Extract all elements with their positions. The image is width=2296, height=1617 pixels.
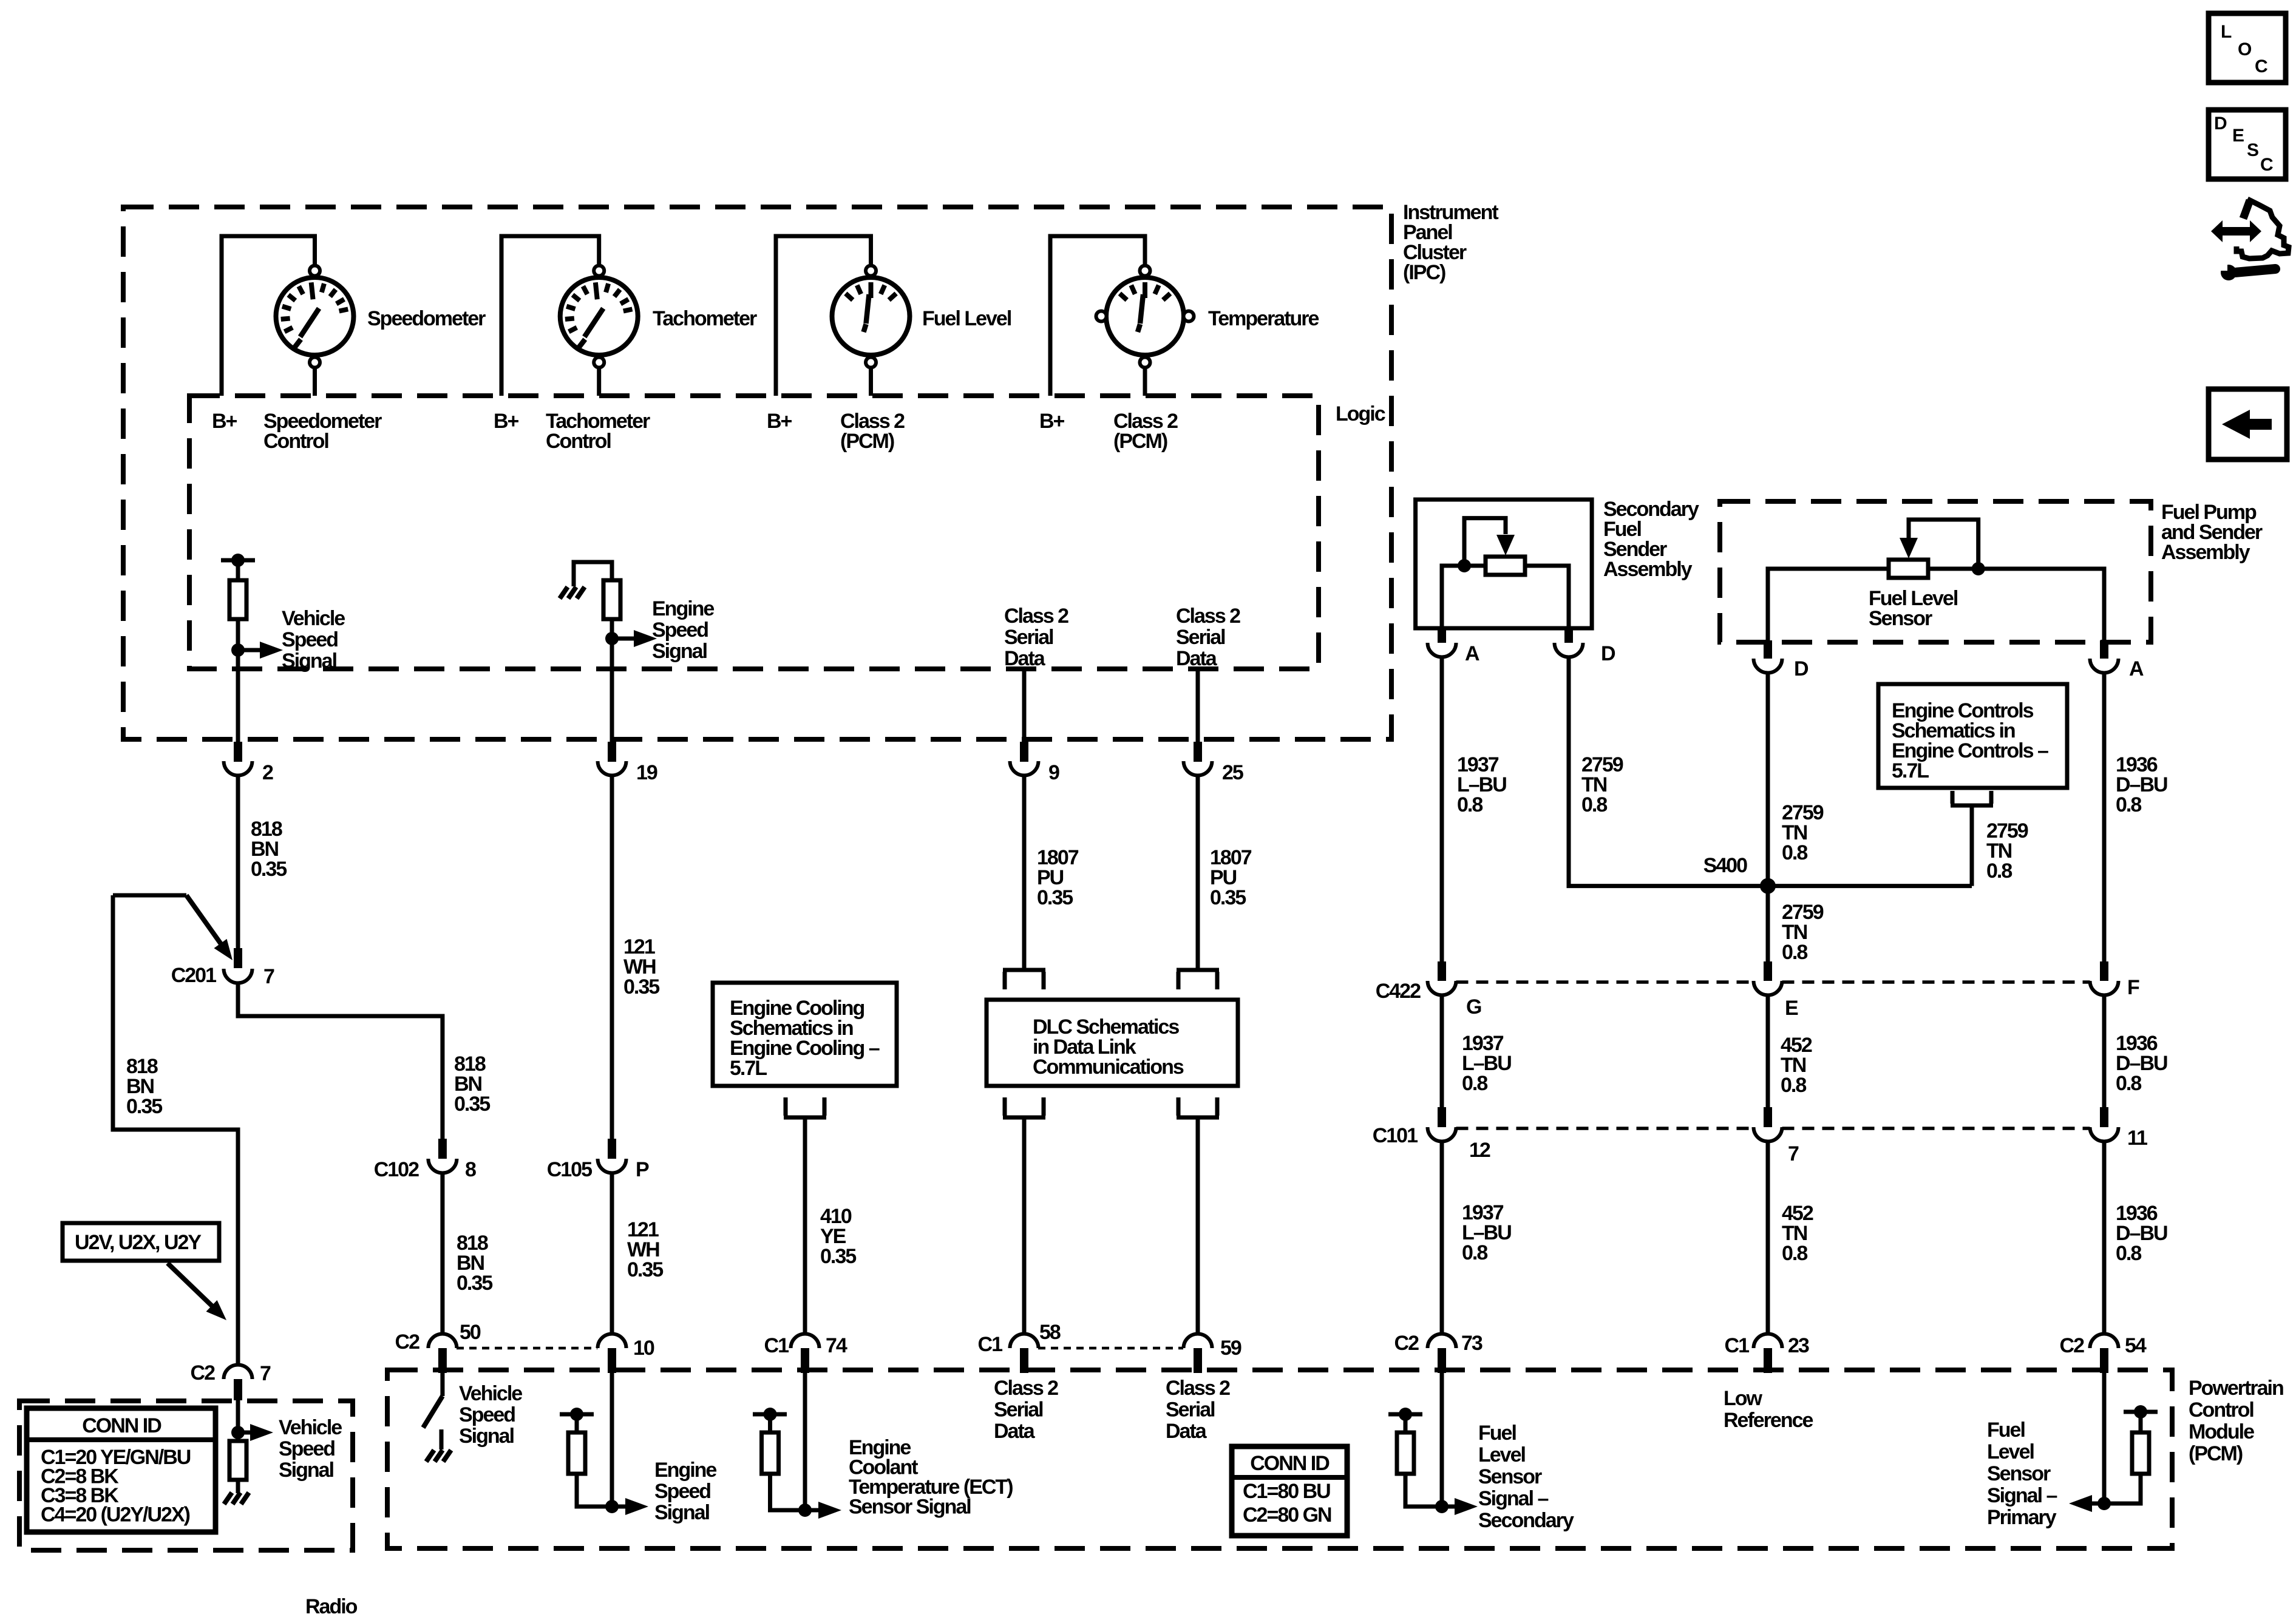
svg-text:C1: C1 <box>1725 1334 1750 1357</box>
box Fuel Pump and Sender Assembly <box>1720 501 2151 642</box>
svg-text:Class 2: Class 2 <box>1166 1377 1230 1400</box>
connector C102 pin 8 <box>438 1139 447 1159</box>
table CONN ID radio <box>27 1408 216 1532</box>
svg-text:D: D <box>1601 642 1615 665</box>
node S400 splice <box>1760 878 1776 894</box>
bracket below DLC left <box>1003 1097 1045 1117</box>
wire 818 BN C102 to pin50 <box>440 1173 444 1334</box>
svg-text:Vehicle: Vehicle <box>282 607 345 630</box>
svg-text:0.8: 0.8 <box>1782 841 1807 864</box>
svg-text:B+: B+ <box>767 410 792 433</box>
inline connector line C422 <box>1456 980 1754 984</box>
svg-text:Data: Data <box>1176 647 1218 670</box>
connector C422 pin E <box>1764 961 1772 981</box>
wire 452 TN C101 to PCM 23 <box>1766 1141 1770 1334</box>
svg-text:C102: C102 <box>374 1158 419 1181</box>
svg-text:59: 59 <box>1220 1337 1241 1360</box>
gauge temperature <box>1096 266 1194 368</box>
svg-text:54: 54 <box>2125 1334 2147 1357</box>
svg-text:Serial: Serial <box>1004 626 1053 649</box>
svg-text:O: O <box>2238 39 2252 59</box>
connector fuel pump pin A <box>2100 640 2108 659</box>
arrow wiper secondary <box>1496 535 1515 555</box>
resistor vehicle speed (IPC) <box>229 580 246 619</box>
connector fuel pump pin D <box>1764 640 1772 659</box>
connector C101 pin 7 <box>1764 1107 1772 1127</box>
ground engine speed (IPC) <box>560 587 568 598</box>
wire C201 to C102 elbow <box>238 983 443 1139</box>
svg-text:C1: C1 <box>764 1334 789 1357</box>
svg-text:CONN ID: CONN ID <box>82 1414 161 1437</box>
svg-text:73: 73 <box>1461 1332 1483 1355</box>
resistor fuel level secondary (PCM) <box>1388 1412 1422 1417</box>
svg-text:50: 50 <box>460 1321 481 1344</box>
svg-text:Signal: Signal <box>279 1459 334 1482</box>
svg-text:C1: C1 <box>978 1333 1003 1356</box>
connector PCM pin 10 <box>598 1334 627 1349</box>
potentiometer fuel level sensor <box>1889 560 1928 578</box>
svg-text:L: L <box>2221 22 2232 42</box>
connector secondary pin D <box>1564 626 1573 643</box>
svg-text:Vehicle: Vehicle <box>279 1416 342 1439</box>
wire radio branch diagonal into C201 <box>186 895 222 946</box>
wire 1937 L-BU C101 to PCM 73 <box>1440 1141 1444 1334</box>
connector PCM pin 59 <box>1184 1334 1212 1349</box>
bracket below engine controls box <box>1951 791 1993 805</box>
connector C422 pin G <box>1438 961 1446 981</box>
svg-text:74: 74 <box>826 1334 847 1357</box>
svg-text:B+: B+ <box>494 410 519 433</box>
box Secondary Fuel Sender Assembly <box>1416 500 1592 628</box>
svg-text:5.7L: 5.7L <box>730 1057 767 1080</box>
svg-text:Serial: Serial <box>1166 1398 1215 1422</box>
svg-text:C105: C105 <box>547 1158 592 1181</box>
node engine speed signal junction <box>605 632 619 645</box>
wire 1937 L-BU pin A to C422 G <box>1440 657 1444 961</box>
node wiper junction fuel pump <box>1972 562 1985 575</box>
connector C201 pin 7 <box>234 948 242 968</box>
svg-text:D: D <box>2214 114 2227 134</box>
svg-text:0.35: 0.35 <box>454 1093 490 1116</box>
svg-text:C4=20 (U2Y/U2X): C4=20 (U2Y/U2X) <box>41 1503 190 1527</box>
svg-text:8: 8 <box>465 1158 476 1181</box>
node wiper junction secondary <box>1458 559 1471 572</box>
box Engine Cooling Schematics <box>713 983 897 1086</box>
wire S400 to engine controls branch <box>1768 884 1972 888</box>
svg-text:58: 58 <box>1039 1321 1061 1344</box>
svg-text:0.35: 0.35 <box>627 1258 663 1281</box>
bracket below DLC right <box>1177 1097 1219 1117</box>
svg-text:0.8: 0.8 <box>1781 1074 1806 1097</box>
svg-text:Sensor: Sensor <box>1869 607 1932 630</box>
svg-text:Sensor: Sensor <box>1478 1465 1542 1488</box>
node radio VSS junction <box>231 1426 245 1439</box>
svg-text:Assembly: Assembly <box>1603 558 1693 581</box>
box U2V U2X U2Y <box>63 1223 219 1261</box>
arrow engine speed signal (PCM) <box>612 1505 627 1509</box>
svg-text:0.35: 0.35 <box>1037 886 1073 909</box>
svg-text:Class 2: Class 2 <box>1004 605 1068 628</box>
wire secondary pot right to pin D <box>1525 566 1569 626</box>
svg-text:A: A <box>2129 657 2144 680</box>
svg-text:Temperature: Temperature <box>1208 307 1319 330</box>
box DLC Schematics <box>987 1000 1238 1086</box>
icon DESC box <box>2209 110 2286 179</box>
svg-text:0.8: 0.8 <box>1581 793 1607 816</box>
wire 121 WH pin19 to C105 <box>610 775 614 1139</box>
resistor radio <box>229 1441 246 1480</box>
svg-text:Speed: Speed <box>459 1403 515 1426</box>
svg-text:7: 7 <box>263 965 274 988</box>
connector PCM C2 pin 54 <box>2090 1334 2119 1349</box>
svg-text:(PCM): (PCM) <box>1113 430 1167 453</box>
node fuel secondary junction <box>1435 1500 1449 1513</box>
svg-text:C2: C2 <box>1394 1332 1419 1355</box>
wire 2759 TN engine controls branch <box>1970 805 1974 886</box>
box Radio <box>19 1401 353 1550</box>
svg-text:Signal –: Signal – <box>1987 1484 2057 1507</box>
wire B+ fuel level gauge <box>776 236 871 396</box>
svg-text:S400: S400 <box>1703 854 1747 877</box>
node vehicle speed signal junction <box>231 643 245 657</box>
svg-text:C2: C2 <box>191 1361 216 1385</box>
connector radio C2 pin 7 <box>224 1365 253 1380</box>
svg-text:Serial: Serial <box>994 1398 1043 1422</box>
wire 1807 PU pin9 to DLC <box>1022 775 1027 969</box>
connector pin 9 <box>1020 742 1028 762</box>
connector pin 25 <box>1194 742 1202 762</box>
wire 1807 PU pin25 to DLC <box>1196 775 1200 969</box>
wire PCM pin50 to switch <box>440 1373 444 1396</box>
svg-text:S: S <box>2247 140 2258 160</box>
gauge tachometer <box>560 266 638 368</box>
wire radio branch vertical <box>113 895 238 1364</box>
svg-text:Level: Level <box>1478 1443 1525 1466</box>
svg-text:0.8: 0.8 <box>2116 793 2141 816</box>
wire 1807 PU DLC to pin59 <box>1196 1117 1200 1334</box>
svg-text:Speedometer: Speedometer <box>367 307 486 330</box>
svg-text:C2: C2 <box>2060 1334 2085 1357</box>
connector PCM C1 pin 23 <box>1754 1334 1782 1349</box>
svg-text:19: 19 <box>636 761 657 784</box>
ground PCM switch <box>426 1450 434 1462</box>
svg-text:Assembly: Assembly <box>2161 541 2250 564</box>
svg-text:9: 9 <box>1048 761 1059 784</box>
bracket below engine cooling box <box>784 1097 826 1117</box>
svg-text:Fuel Level: Fuel Level <box>922 307 1011 330</box>
arrow U2V to wire <box>168 1263 216 1310</box>
svg-text:0.35: 0.35 <box>251 858 287 881</box>
arrow wiper fuel pump <box>1900 538 1918 558</box>
svg-text:Signal: Signal <box>652 640 707 663</box>
svg-text:C422: C422 <box>1376 980 1421 1003</box>
svg-text:0.35: 0.35 <box>1210 886 1246 909</box>
connector PCM C2 pin 73 <box>1428 1334 1456 1349</box>
wire B+ temperature gauge <box>1050 236 1145 396</box>
svg-text:Low: Low <box>1724 1387 1763 1410</box>
wire 1936 D-BU C422 to C101 <box>2102 995 2107 1107</box>
wire PCM pin73 internal <box>1440 1373 1444 1507</box>
svg-text:CONN ID: CONN ID <box>1250 1452 1330 1475</box>
wire class 2 serial data right (IPC) <box>1196 669 1200 742</box>
resistor engine speed (PCM) <box>560 1412 594 1417</box>
svg-text:Engine: Engine <box>652 597 714 620</box>
svg-text:Primary: Primary <box>1987 1506 2057 1529</box>
wire 1937 L-BU C422 to C101 <box>1440 995 1444 1107</box>
node vehicle speed pull-up top <box>221 558 255 563</box>
svg-text:Control: Control <box>263 430 328 453</box>
svg-text:U2V, U2X, U2Y: U2V, U2X, U2Y <box>75 1231 202 1254</box>
wire tachometer control <box>597 368 601 396</box>
arrow vehicle speed signal (IPC) <box>238 648 261 653</box>
wire PCM pin74 internal <box>803 1373 807 1510</box>
svg-text:F: F <box>2127 976 2139 999</box>
connector C101 pin 12 <box>1438 1107 1446 1127</box>
wire 1936 D-BU C101 to PCM 54 <box>2102 1141 2107 1334</box>
svg-text:G: G <box>1466 995 1481 1019</box>
switch vehicle speed signal (PCM) <box>423 1396 443 1428</box>
svg-text:E: E <box>2232 126 2244 146</box>
svg-text:Serial: Serial <box>1176 626 1225 649</box>
svg-text:Vehicle: Vehicle <box>459 1382 522 1405</box>
node switch fixed contact <box>440 1429 444 1449</box>
bracket above DLC right <box>1177 970 1219 989</box>
wire 121 WH C105 to pin10 <box>610 1173 614 1334</box>
svg-text:Control: Control <box>546 430 611 453</box>
svg-text:0.8: 0.8 <box>1782 941 1807 964</box>
resistor ECT (PCM) <box>753 1412 787 1417</box>
wire B+ tachometer <box>501 236 599 396</box>
node fuel primary junction <box>2097 1497 2111 1510</box>
svg-text:Communications: Communications <box>1033 1056 1184 1079</box>
wire wiper loop fuel pump <box>1909 520 1978 567</box>
svg-text:Secondary: Secondary <box>1478 1509 1574 1532</box>
wire ground loop col2 <box>574 562 612 586</box>
svg-text:Class 2: Class 2 <box>1176 605 1240 628</box>
svg-text:(IPC): (IPC) <box>1403 261 1445 284</box>
box Powertrain Control Module (PCM) <box>387 1370 2172 1548</box>
svg-text:0.35: 0.35 <box>457 1272 492 1295</box>
wire radio VSS internal <box>236 1400 240 1441</box>
connector secondary pin A <box>1438 626 1446 643</box>
wire fuel pot right to pin A <box>1928 569 2104 640</box>
connector PCM C2 pin 50 <box>428 1334 457 1349</box>
svg-text:C2=80 GN: C2=80 GN <box>1243 1503 1331 1527</box>
wire 2759 TN S400 to C422 E <box>1766 886 1770 961</box>
svg-text:Signal –: Signal – <box>1478 1487 1548 1510</box>
svg-text:Tachometer: Tachometer <box>653 307 757 330</box>
svg-text:Fuel: Fuel <box>1478 1422 1516 1445</box>
svg-text:7: 7 <box>260 1362 271 1385</box>
svg-text:0.8: 0.8 <box>1457 793 1483 816</box>
connector C101 pin 11 <box>2100 1107 2108 1127</box>
svg-text:23: 23 <box>1788 1334 1809 1357</box>
svg-text:0.8: 0.8 <box>2116 1072 2141 1095</box>
svg-text:0.8: 0.8 <box>1986 859 2012 883</box>
wire 410 YE to pin74 <box>803 1117 807 1334</box>
svg-text:B+: B+ <box>212 410 237 433</box>
connector C105 pin P <box>608 1139 616 1159</box>
svg-text:Class 2: Class 2 <box>994 1377 1058 1400</box>
box Logic <box>189 396 1319 669</box>
svg-text:Data: Data <box>994 1420 1036 1443</box>
wire 1807 PU DLC to pin58 <box>1022 1117 1027 1334</box>
svg-text:0.35: 0.35 <box>820 1245 856 1268</box>
svg-text:7: 7 <box>1788 1142 1799 1165</box>
arrow engine speed signal (IPC) <box>612 637 635 641</box>
table CONN ID PCM <box>1232 1446 1347 1536</box>
inline connector line C101 <box>1456 1127 1754 1130</box>
svg-text:Signal: Signal <box>654 1501 710 1524</box>
svg-text:Data: Data <box>1004 647 1046 670</box>
connector pin 19 <box>608 742 616 762</box>
svg-text:C2: C2 <box>395 1331 420 1354</box>
svg-text:B+: B+ <box>1039 410 1065 433</box>
wire radio branch horizontal <box>113 893 186 898</box>
svg-text:C1=80 BU: C1=80 BU <box>1243 1480 1330 1503</box>
svg-text:C101: C101 <box>1373 1124 1418 1147</box>
wire 452 TN C422 to C101 <box>1766 995 1770 1107</box>
wire resistor to junction col1 <box>236 619 240 742</box>
svg-text:0.8: 0.8 <box>1462 1241 1487 1264</box>
svg-text:Speed: Speed <box>279 1437 335 1460</box>
wire B+ speedometer <box>222 236 315 396</box>
svg-text:11: 11 <box>2127 1127 2147 1150</box>
wire PCM pin10 internal <box>610 1373 614 1507</box>
svg-text:Level: Level <box>1987 1440 2034 1463</box>
svg-text:Signal: Signal <box>282 649 337 673</box>
svg-text:25: 25 <box>1222 761 1243 784</box>
icon connector view pictogram <box>2237 199 2289 259</box>
svg-text:Sensor: Sensor <box>1987 1462 2051 1485</box>
svg-text:Module: Module <box>2189 1420 2254 1443</box>
wire 1936 D-BU pin A to C422 F <box>2102 673 2107 961</box>
node engine speed junction (PCM) <box>605 1500 619 1513</box>
svg-text:Speed: Speed <box>282 628 338 651</box>
inline connector line 58 to 59 <box>1038 1347 1183 1350</box>
wire to resistor col1 <box>236 560 240 580</box>
icon LOC box <box>2209 13 2286 83</box>
svg-text:5.7L: 5.7L <box>1892 759 1929 782</box>
wire speedometer control <box>313 368 317 396</box>
arrow fuel level sensor signal secondary <box>1442 1505 1456 1509</box>
svg-text:Powertrain: Powertrain <box>2189 1377 2283 1400</box>
arrow radio vehicle speed signal <box>238 1431 251 1435</box>
connector PCM C1 pin 74 <box>791 1334 820 1349</box>
wire 2759 TN pin D to S400 <box>1569 657 1768 886</box>
arrow fuel level sensor signal primary <box>2091 1502 2104 1506</box>
svg-text:Engine: Engine <box>654 1459 716 1482</box>
wire class 2 serial data left (IPC) <box>1022 669 1027 742</box>
wire 818 BN pin2 to C201 <box>236 775 240 948</box>
svg-text:A: A <box>1465 642 1479 665</box>
wire PCM pin54 internal <box>2102 1373 2107 1503</box>
svg-text:0.35: 0.35 <box>623 975 659 998</box>
resistor engine speed (IPC) <box>603 580 620 619</box>
connector pin 2 <box>234 742 242 762</box>
wire 2759 TN fuel pump D to S400 <box>1766 673 1770 886</box>
svg-text:10: 10 <box>633 1337 654 1360</box>
svg-text:Speed: Speed <box>652 619 708 642</box>
svg-text:Fuel: Fuel <box>1987 1419 2025 1442</box>
svg-text:0.35: 0.35 <box>126 1095 162 1118</box>
svg-text:Radio: Radio <box>305 1595 358 1617</box>
gauge fuel level <box>832 266 910 368</box>
ground radio <box>224 1493 232 1504</box>
inline connector line C2-50 to 10 <box>457 1347 597 1350</box>
svg-text:E: E <box>1785 997 1798 1020</box>
node ECT junction (PCM) <box>798 1503 812 1517</box>
svg-text:Data: Data <box>1166 1420 1207 1443</box>
gauge speedometer <box>276 266 354 368</box>
svg-text:Logic: Logic <box>1336 402 1385 425</box>
svg-text:C: C <box>2260 155 2273 175</box>
svg-text:Sensor Signal: Sensor Signal <box>849 1496 971 1519</box>
svg-text:0.8: 0.8 <box>1462 1072 1487 1095</box>
wire temperature gauge output <box>1143 368 1147 396</box>
svg-text:(PCM): (PCM) <box>2189 1442 2243 1465</box>
svg-text:C201: C201 <box>171 964 216 987</box>
wire radio resistor to ground <box>236 1480 240 1493</box>
wire wiper loop secondary <box>1464 518 1506 566</box>
svg-text:2: 2 <box>262 761 273 784</box>
wire resistor to connector 19 <box>610 619 614 742</box>
svg-text:(PCM): (PCM) <box>840 430 894 453</box>
wire fuel level gauge output <box>869 368 873 396</box>
svg-text:12: 12 <box>1469 1139 1490 1162</box>
wire secondary pot left to pin A <box>1442 566 1486 626</box>
connector PCM C1 pin 58 <box>1010 1334 1039 1349</box>
svg-text:C: C <box>2255 56 2267 76</box>
arrow ECT sensor signal <box>805 1508 820 1513</box>
icon back arrow box <box>2209 389 2287 459</box>
connector C422 pin F <box>2100 961 2108 981</box>
bracket above DLC left <box>1003 970 1045 989</box>
svg-text:Reference: Reference <box>1724 1409 1813 1432</box>
svg-text:0.8: 0.8 <box>2116 1242 2141 1265</box>
svg-text:P: P <box>636 1158 649 1181</box>
wire fuel pot left to pin D <box>1768 569 1889 640</box>
box Engine Controls Schematics <box>1878 684 2067 788</box>
svg-text:Control: Control <box>2189 1398 2254 1422</box>
resistor fuel level primary (PCM) <box>2124 1410 2158 1414</box>
svg-text:Signal: Signal <box>459 1425 514 1448</box>
box Instrument Panel Cluster (IPC) <box>123 207 1391 739</box>
potentiometer secondary fuel sender <box>1486 557 1525 575</box>
svg-text:D: D <box>1794 657 1809 680</box>
svg-text:Speed: Speed <box>654 1480 710 1503</box>
svg-text:0.8: 0.8 <box>1782 1242 1807 1265</box>
